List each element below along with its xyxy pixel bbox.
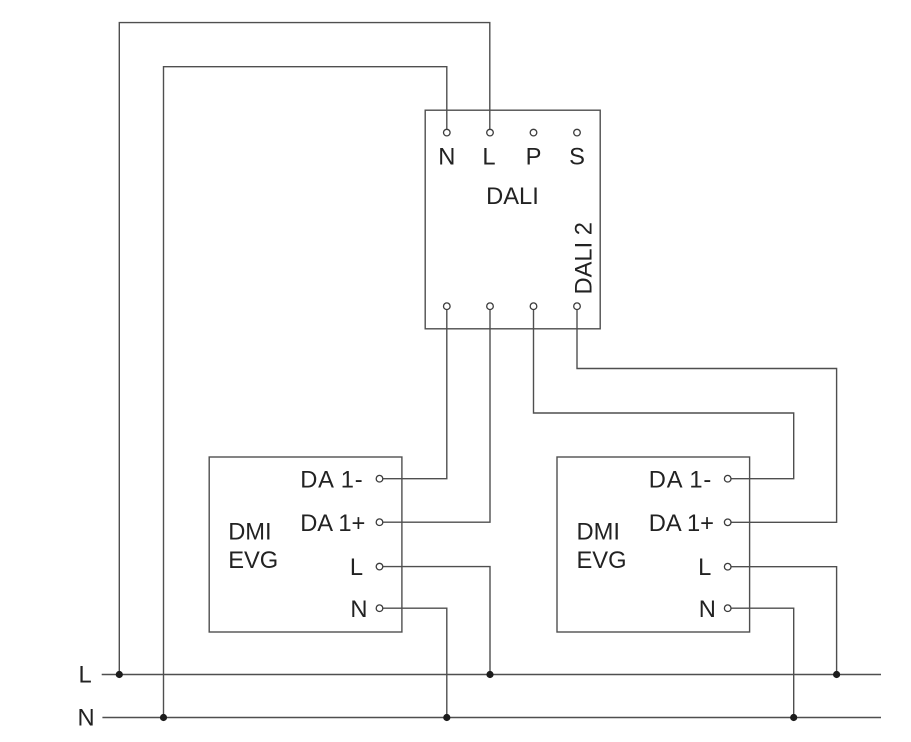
svg-text:N: N <box>438 144 455 170</box>
pin DA 1+ of left EVG <box>376 519 383 526</box>
pin DA 1 of DALI unit (bottom) <box>444 303 451 310</box>
wire DALI DA output 2 to left EVG DA 1+ <box>380 306 491 522</box>
pin DA 2 of DALI unit (bottom) <box>487 303 494 310</box>
svg-text:DALI 2: DALI 2 <box>571 222 597 294</box>
pin L of right EVG <box>724 563 731 570</box>
svg-text:DA 1-: DA 1- <box>649 467 712 493</box>
svg-text:L: L <box>79 663 92 689</box>
pin DA 3 of DALI unit (bottom) <box>530 303 537 310</box>
net L mains rail <box>102 674 881 676</box>
pin S of DALI unit (top) <box>574 129 581 136</box>
svg-text:EVG: EVG <box>228 548 278 574</box>
svg-text:DALI: DALI <box>486 184 539 210</box>
pin P of DALI unit (top) <box>530 129 537 136</box>
junction L-rail / left EVG L wire <box>486 671 493 678</box>
svg-text:N: N <box>78 705 95 731</box>
svg-text:L: L <box>698 555 711 581</box>
pin DA 1- of left EVG <box>376 475 383 482</box>
svg-text:N: N <box>699 597 716 623</box>
svg-text:S: S <box>569 144 585 170</box>
pin N of DALI unit (top) <box>444 129 451 136</box>
svg-text:L: L <box>482 144 495 170</box>
junction N-rail / feed wire <box>160 714 167 721</box>
junction L-rail / feed wire <box>116 671 123 678</box>
svg-text:DMI: DMI <box>228 520 271 546</box>
wire N-rail to DALI terminal N <box>164 67 447 718</box>
wire DALI DA output 3 to right EVG DA 1- <box>534 306 794 479</box>
svg-text:EVG: EVG <box>577 548 627 574</box>
svg-text:DMI: DMI <box>577 520 620 546</box>
svg-text:DA 1-: DA 1- <box>300 467 363 493</box>
right DMI EVG ballast box <box>557 457 750 632</box>
DALI control unit box <box>425 110 600 329</box>
pin L of left EVG <box>376 563 383 570</box>
pin DALI 2 of DALI unit (bottom) <box>574 303 581 310</box>
wire left EVG N to N-rail <box>380 608 447 717</box>
junction N-rail / left EVG N wire <box>443 714 450 721</box>
svg-text:P: P <box>526 144 542 170</box>
junction N-rail / right EVG N wire <box>790 714 797 721</box>
net N mains rail <box>102 717 881 719</box>
left DMI EVG ballast box <box>209 457 402 632</box>
svg-text:DA 1+: DA 1+ <box>649 511 714 537</box>
wire DALI DA output 1 to left EVG DA 1- <box>380 306 447 479</box>
pin L of DALI unit (top) <box>487 129 494 136</box>
junction L-rail / right EVG L wire <box>833 671 840 678</box>
pin N of left EVG <box>376 605 383 612</box>
svg-text:DA 1+: DA 1+ <box>300 511 365 537</box>
wire L-rail to DALI terminal L <box>119 23 490 675</box>
wire left EVG L to L-rail <box>380 567 491 675</box>
svg-text:L: L <box>350 555 363 581</box>
wire right EVG L to L-rail <box>728 567 837 675</box>
wire right EVG N to N-rail <box>728 608 794 717</box>
pin N of right EVG <box>724 605 731 612</box>
pin DA 1+ of right EVG <box>724 519 731 526</box>
wire DALI 2 output to right EVG DA 1+ <box>577 306 837 522</box>
svg-text:N: N <box>350 597 367 623</box>
pin DA 1- of right EVG <box>724 475 731 482</box>
